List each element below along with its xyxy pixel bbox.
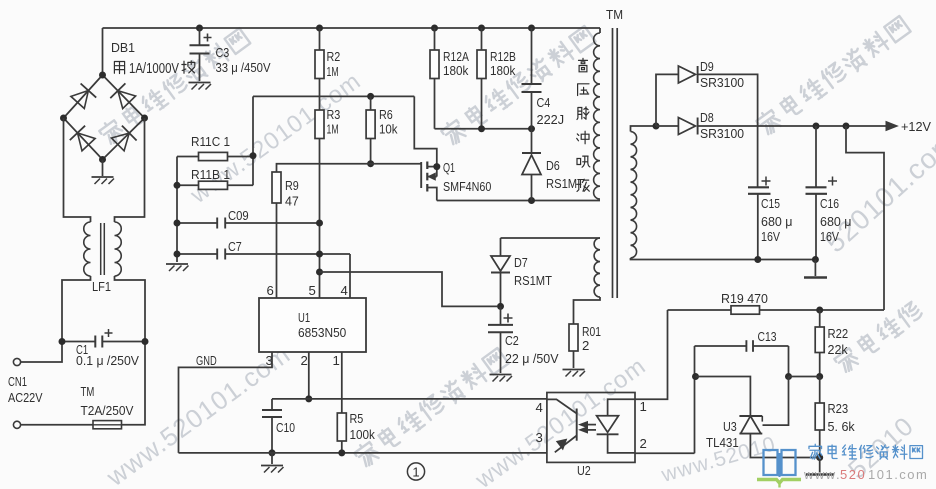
svg-text:0.1 μ /250V: 0.1 μ /250V xyxy=(76,353,139,368)
label U2 xyxy=(577,463,591,478)
node feedback tap xyxy=(843,123,850,130)
svg-text:3: 3 xyxy=(536,430,543,445)
label R12A xyxy=(443,49,469,78)
svg-text:180k: 180k xyxy=(443,63,469,78)
transformer TM secondary xyxy=(631,132,637,259)
node pin2 xyxy=(305,395,312,402)
ground bridge xyxy=(92,160,115,185)
wire C13 left leg xyxy=(694,346,696,453)
diode DB1 upper-left xyxy=(71,84,96,109)
svg-text:+12V: +12V xyxy=(901,119,931,134)
capacitor C3 xyxy=(190,28,212,81)
svg-text:16V: 16V xyxy=(820,229,839,244)
svg-text:D9: D9 xyxy=(700,59,714,74)
wire ref segment xyxy=(789,376,820,378)
svg-text:R22: R22 xyxy=(828,326,849,341)
resistor R11B xyxy=(177,181,253,189)
svg-text:R3: R3 xyxy=(327,107,341,122)
svg-text:R11B 1: R11B 1 xyxy=(191,167,230,182)
svg-text:100k: 100k xyxy=(350,427,376,442)
label D7 xyxy=(514,255,552,288)
svg-text:5. 6k: 5. 6k xyxy=(828,419,856,434)
svg-text:CN1: CN1 xyxy=(8,374,27,389)
opto arrows U2 xyxy=(580,422,597,433)
node R23 bottom xyxy=(816,454,823,461)
svg-text:1: 1 xyxy=(412,465,419,480)
svg-text:DB1: DB1 xyxy=(111,40,135,55)
svg-text:2: 2 xyxy=(582,338,589,353)
logo site name xyxy=(809,444,923,459)
label TM xyxy=(606,7,623,22)
label CN1 xyxy=(8,374,27,389)
svg-text:T2A/250V: T2A/250V xyxy=(81,403,134,418)
label DB1 xyxy=(111,40,135,55)
svg-text:1: 1 xyxy=(640,399,647,414)
wire R19 line xyxy=(668,309,885,311)
capacitor C10 xyxy=(262,399,282,453)
label U1 pin6 xyxy=(267,283,274,298)
wire gate xyxy=(277,164,422,172)
label R11B xyxy=(191,167,230,182)
svg-text:R01: R01 xyxy=(582,324,601,339)
capacitor C09 xyxy=(177,218,320,229)
capacitor C7 xyxy=(177,249,350,260)
label D6 xyxy=(546,158,584,191)
label C7 xyxy=(228,239,242,254)
node clamp xyxy=(528,125,535,132)
svg-text:2: 2 xyxy=(640,436,647,451)
label U2 pin4 xyxy=(536,400,543,415)
resistor R6 xyxy=(366,96,375,163)
wire feedback down xyxy=(846,126,884,310)
svg-text:R2: R2 xyxy=(327,49,341,64)
label D8 xyxy=(700,110,744,141)
svg-text:C09: C09 xyxy=(228,208,249,223)
svg-text:AC22V: AC22V xyxy=(8,390,43,405)
label C16 xyxy=(820,196,852,244)
svg-text:2: 2 xyxy=(301,353,308,368)
label C10 xyxy=(276,420,295,435)
arrow +12V xyxy=(886,122,898,131)
node C7 left xyxy=(174,251,181,258)
svg-text:R6: R6 xyxy=(379,107,393,122)
resistor R11C xyxy=(177,152,253,160)
svg-text:1: 1 xyxy=(333,353,340,368)
label C1 xyxy=(76,342,88,357)
svg-text:Q1: Q1 xyxy=(443,160,455,175)
svg-text:680 μ: 680 μ xyxy=(820,214,852,229)
capacitor C2 xyxy=(488,306,513,373)
svg-text:U1: U1 xyxy=(298,310,310,325)
label R11C xyxy=(191,134,230,149)
ground C3 xyxy=(189,83,212,90)
fuse TM xyxy=(93,421,122,429)
wire VDD bus xyxy=(272,398,547,400)
svg-text:6853N50: 6853N50 xyxy=(298,325,346,340)
wire LF1-right to C1/fuse xyxy=(115,276,146,425)
wire secondary top xyxy=(631,126,657,132)
capacitor C15 xyxy=(748,177,771,260)
resistor R3 xyxy=(315,96,324,298)
node C1 left xyxy=(59,338,66,345)
label U2 pin1 xyxy=(640,399,647,414)
capacitor C16 xyxy=(806,126,838,260)
wire C13 right leg xyxy=(788,346,790,377)
IC U1 box xyxy=(259,298,366,352)
svg-text:33 μ /450V: 33 μ /450V xyxy=(216,60,271,75)
diode D6 xyxy=(522,129,541,201)
capacitor C13 xyxy=(695,340,789,352)
node bridge left xyxy=(60,115,67,122)
inductor LF1 left winding xyxy=(84,222,91,276)
terminal CN1 top xyxy=(13,358,20,365)
node ref xyxy=(785,373,792,380)
resistor R5 xyxy=(337,352,346,453)
wire R11 left rail xyxy=(176,157,178,263)
label R5 xyxy=(350,411,376,442)
svg-text:C7: C7 xyxy=(228,239,242,254)
resistor R19 xyxy=(731,306,760,314)
resistor R23 xyxy=(815,377,824,458)
label R23 xyxy=(828,401,856,434)
svg-text:C4: C4 xyxy=(537,95,551,110)
svg-text:SR3100: SR3100 xyxy=(700,126,744,141)
label R6 xyxy=(379,107,398,137)
label Q1 xyxy=(443,160,455,175)
figure number xyxy=(407,463,424,480)
node C09 left xyxy=(174,220,181,227)
svg-text:U3: U3 xyxy=(723,419,737,434)
svg-text:1M: 1M xyxy=(327,64,339,79)
node C4 top xyxy=(528,25,535,32)
label C2 xyxy=(505,333,519,348)
label R01 xyxy=(582,324,601,353)
svg-text:TM: TM xyxy=(81,384,95,399)
label fuse value xyxy=(81,403,134,418)
wire pin2 to node xyxy=(635,452,695,454)
ground R01 xyxy=(563,370,586,377)
logo url xyxy=(803,467,928,482)
capacitor C1 xyxy=(62,329,145,348)
node C7 right xyxy=(316,251,323,258)
svg-text:R9: R9 xyxy=(285,178,299,193)
diode DB1 lower-right xyxy=(111,126,136,151)
svg-text:TM: TM xyxy=(606,7,623,22)
wire LF1-left to C1 xyxy=(21,276,91,362)
svg-text:1A/1000V: 1A/1000V xyxy=(129,61,179,77)
svg-text:SMF4N60: SMF4N60 xyxy=(443,179,491,194)
node C3 top xyxy=(196,25,203,32)
node C10 bottom xyxy=(269,449,276,456)
svg-text:U2: U2 xyxy=(577,463,591,478)
svg-text:R5: R5 xyxy=(350,411,364,426)
node R6 top xyxy=(367,93,374,100)
ground secondary xyxy=(804,260,827,278)
wire node96 xyxy=(253,96,414,155)
wire cathode xyxy=(696,377,751,417)
node C16 top xyxy=(813,123,820,130)
node divider xyxy=(816,373,823,380)
resistor R9 xyxy=(272,172,281,298)
node R22 top xyxy=(816,307,823,314)
svg-text:C10: C10 xyxy=(276,420,295,435)
svg-text:R23: R23 xyxy=(828,401,849,416)
svg-text:SR3100: SR3100 xyxy=(700,75,744,90)
capacitor C4 xyxy=(522,28,542,129)
svg-text:22k: 22k xyxy=(828,342,849,357)
label +12V xyxy=(901,119,931,134)
resistor R2 xyxy=(315,28,324,96)
wire clamp xyxy=(435,128,532,130)
wire pin2 xyxy=(308,352,310,399)
diode D9 xyxy=(678,66,697,83)
svg-text:R12A: R12A xyxy=(443,49,469,64)
wire to D7 xyxy=(320,272,498,306)
node R12A top xyxy=(431,25,438,32)
node VCC tap xyxy=(316,269,323,276)
label C15 xyxy=(761,196,793,244)
diode DB1 lower-left xyxy=(70,126,95,151)
node C1 right xyxy=(142,338,149,345)
ground R23 xyxy=(806,458,834,475)
svg-text:520: 520 xyxy=(840,467,866,482)
wire top +310V rail xyxy=(103,28,601,75)
label C2 value xyxy=(505,351,559,366)
node R5 bottom xyxy=(338,449,345,456)
label R12B xyxy=(490,49,516,78)
svg-text:RS1MT: RS1MT xyxy=(514,273,552,288)
label snubber text xyxy=(577,58,590,191)
label R19 xyxy=(721,291,768,306)
label U2 pin2 xyxy=(640,436,647,451)
IC U2 box xyxy=(547,393,635,463)
label U1 pin2 xyxy=(301,353,308,368)
wire bridge-left to LF1 xyxy=(64,118,91,222)
wire D9 out xyxy=(698,74,758,187)
label C4 xyxy=(537,95,565,127)
wire pin1 riser xyxy=(635,310,668,399)
resistor R22 xyxy=(815,310,824,377)
label AC22V xyxy=(8,390,43,405)
wire bottom rail xyxy=(179,452,547,454)
wire bridge-right to LF1 xyxy=(115,118,145,222)
label C3 value xyxy=(216,60,271,75)
label U3 xyxy=(706,419,739,450)
wire +12V rail xyxy=(698,125,886,127)
wire D9 branch xyxy=(656,74,678,126)
label U1 pin3 xyxy=(266,353,273,368)
node R12B bottom xyxy=(478,125,485,132)
svg-text:GND: GND xyxy=(196,353,217,368)
resistor R12A xyxy=(430,28,439,129)
terminal CN1 bottom xyxy=(13,421,20,428)
node R11C right xyxy=(250,152,257,159)
label U1 pin1 xyxy=(333,353,340,368)
transistor Q1 xyxy=(421,162,437,201)
label C1 value xyxy=(76,353,139,368)
svg-text:D8: D8 xyxy=(700,110,714,125)
wire GND pin3 xyxy=(179,352,273,453)
core TM xyxy=(613,28,618,298)
wire secondary bottom xyxy=(631,258,817,260)
label GND xyxy=(196,353,217,368)
svg-text:D7: D7 xyxy=(514,255,528,270)
svg-text:4: 4 xyxy=(536,400,543,415)
svg-text:5: 5 xyxy=(309,283,316,298)
wire drain to primary xyxy=(437,200,600,202)
svg-text:47: 47 xyxy=(285,194,299,209)
svg-text:C15: C15 xyxy=(761,196,780,211)
svg-text:R11C 1: R11C 1 xyxy=(191,134,230,149)
opto LED U2 xyxy=(597,399,635,453)
node R2 top xyxy=(316,25,323,32)
label LF1 xyxy=(92,279,111,294)
node bridge bottom xyxy=(99,156,106,163)
label U2 pin3 xyxy=(536,430,543,445)
opto transistor U2 xyxy=(547,399,577,452)
diode D8 xyxy=(656,118,698,135)
node R11B left xyxy=(174,182,181,189)
label D9 xyxy=(700,59,744,90)
node R12B top xyxy=(478,25,485,32)
label C3 xyxy=(216,45,230,60)
node bridge top xyxy=(99,72,106,79)
node C13 left xyxy=(692,373,699,380)
wire aux to D7 xyxy=(501,238,601,256)
svg-text:R19 470: R19 470 xyxy=(721,291,768,306)
svg-text:www.: www. xyxy=(803,467,841,482)
label R3 xyxy=(327,107,341,137)
diode D7 xyxy=(491,256,510,306)
label U1 pin4 xyxy=(341,283,348,298)
svg-text:C13: C13 xyxy=(758,329,777,344)
label C09 xyxy=(228,208,249,223)
wire CN1 bottom to fuse xyxy=(21,424,93,426)
node C2 top xyxy=(497,303,504,310)
svg-text:C16: C16 xyxy=(820,196,839,211)
core LF1 xyxy=(101,223,105,275)
node C09 right xyxy=(316,220,323,227)
wire aux to R01 xyxy=(574,297,601,324)
node D6 anode xyxy=(528,197,535,204)
resistor R12B xyxy=(477,28,486,129)
svg-text:C3: C3 xyxy=(216,45,230,60)
svg-text:TL431: TL431 xyxy=(706,435,739,450)
inductor LF1 right winding xyxy=(115,222,122,276)
svg-text:16V: 16V xyxy=(761,229,780,244)
node Q1 source xyxy=(433,163,440,170)
svg-text:LF1: LF1 xyxy=(92,279,111,294)
wire R11 right join xyxy=(252,156,254,186)
label fuse TM xyxy=(81,384,95,399)
svg-text:6: 6 xyxy=(267,283,274,298)
node bridge right xyxy=(141,115,148,122)
label Q1 type xyxy=(443,179,491,194)
svg-text:101.com: 101.com xyxy=(868,467,928,482)
label R22 xyxy=(828,326,849,357)
svg-text:C2: C2 xyxy=(505,333,519,348)
logo book icon xyxy=(757,450,801,488)
resistor R01 xyxy=(569,324,578,368)
ground C09/C7 xyxy=(166,264,189,271)
diode DB1 upper-right xyxy=(110,83,135,108)
svg-text:222J: 222J xyxy=(537,112,565,127)
transformer TM primary xyxy=(594,33,600,199)
ground C2 xyxy=(490,375,513,382)
node gnd sec xyxy=(812,256,819,263)
svg-text:22 μ /50V: 22 μ /50V xyxy=(505,351,559,366)
ground C10 xyxy=(261,453,284,473)
svg-text:180k: 180k xyxy=(490,63,516,78)
svg-text:4: 4 xyxy=(341,283,348,298)
label R9 xyxy=(285,178,299,209)
svg-text:10k: 10k xyxy=(379,122,398,137)
wire source to node96 xyxy=(414,96,437,166)
node D8 in xyxy=(653,123,660,130)
node R6 gate xyxy=(367,160,374,167)
label C13 xyxy=(758,329,777,344)
IC U3 TL431 xyxy=(739,377,819,458)
node C15 bottom xyxy=(754,256,761,263)
label DB1 value xyxy=(114,61,194,77)
label R2 xyxy=(327,49,341,79)
bridge DB1 outline xyxy=(64,75,145,160)
label U1 xyxy=(298,310,346,340)
svg-text:680 μ: 680 μ xyxy=(761,214,793,229)
svg-text:R12B: R12B xyxy=(490,49,516,64)
wire pin4 drop xyxy=(349,254,351,298)
svg-text:1M: 1M xyxy=(327,122,339,137)
transformer TM aux xyxy=(594,238,600,297)
svg-text:D6: D6 xyxy=(546,158,560,173)
label U1 pin5 xyxy=(309,283,316,298)
